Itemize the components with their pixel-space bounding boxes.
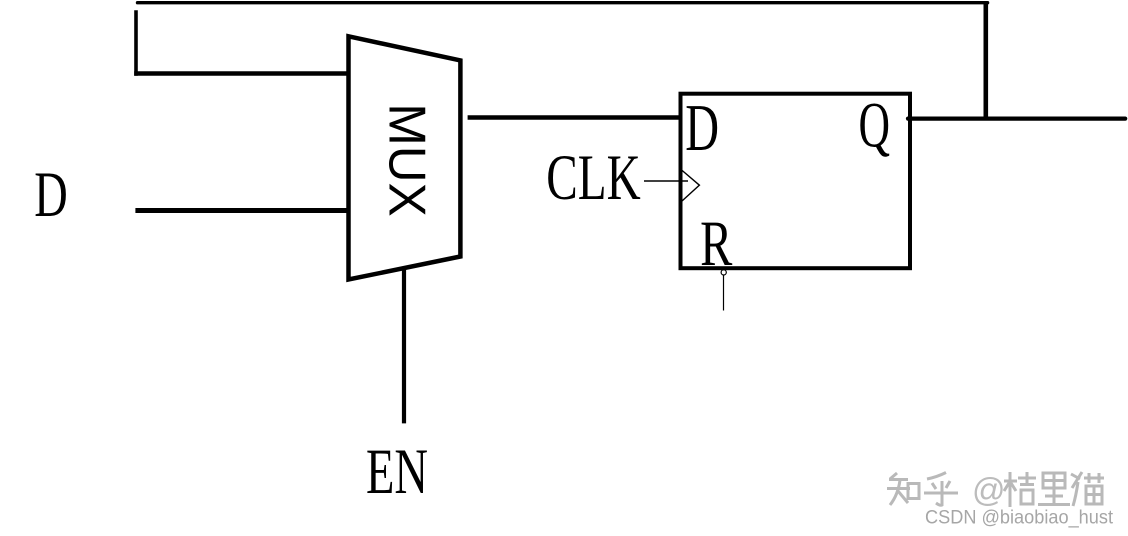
svg-text:CLK: CLK: [546, 142, 640, 214]
svg-text:D: D: [34, 159, 68, 231]
svg-text:EN: EN: [366, 436, 428, 508]
svg-text:D: D: [685, 91, 719, 165]
svg-text:CSDN @biaobiao_hust: CSDN @biaobiao_hust: [925, 508, 1114, 529]
svg-text:R: R: [700, 208, 733, 280]
svg-text:MUX: MUX: [378, 103, 436, 217]
svg-text:Q: Q: [859, 90, 891, 162]
svg-text:@: @: [972, 471, 1006, 508]
